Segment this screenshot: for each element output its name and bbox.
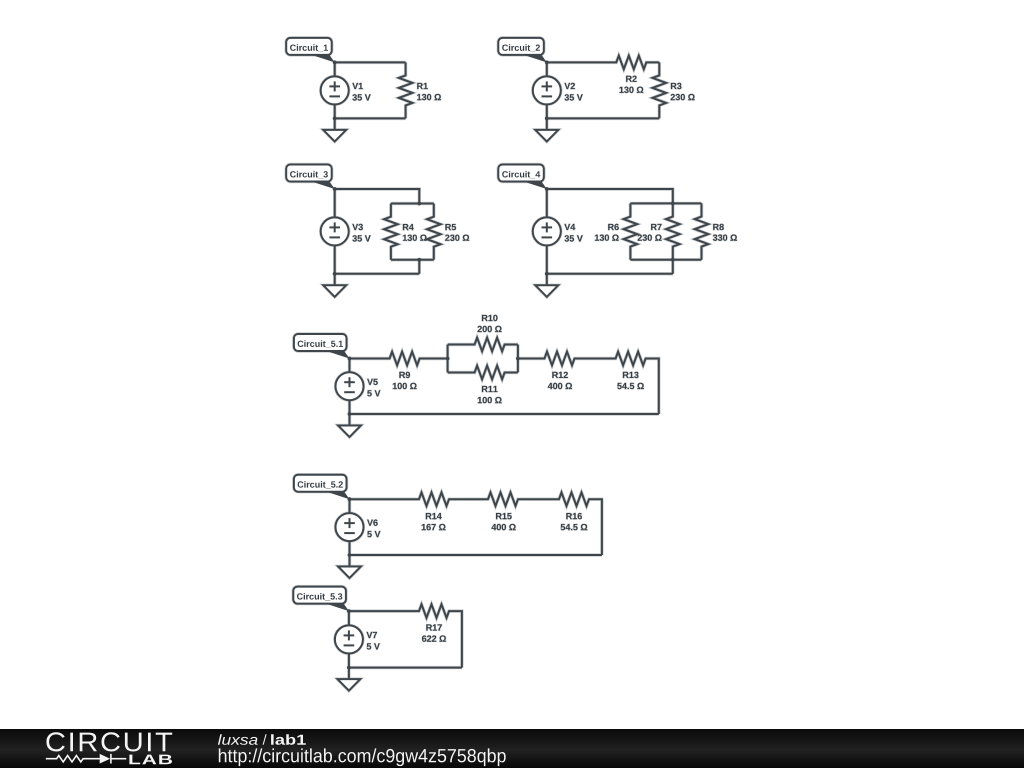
wire parallel bottom bar Circuit_3 (391, 259, 434, 261)
callout label Circuit_5.2 (294, 475, 347, 492)
value label R14 167 ohm (426, 513, 442, 519)
footer bar (0, 729, 1024, 768)
callout label Circuit_4 (498, 165, 544, 182)
value label R15 400 ohm (496, 513, 512, 519)
title luxsa / lab1 (218, 734, 258, 745)
junction node parallel right Circuit_5.1 (516, 357, 520, 361)
wire bottom rail Circuit_3 (335, 273, 420, 275)
ground Circuit_2 (546, 118, 548, 129)
resistor R5 (427, 204, 441, 260)
junction node bottom Circuit_5.3 (347, 666, 351, 670)
resistor R4 (384, 204, 398, 260)
wire main rail with resistor R9 (350, 352, 448, 366)
junction node top Circuit_2 (545, 61, 549, 65)
resistor R10 (448, 338, 518, 352)
resistor R8 (695, 203, 709, 259)
value label R3 230 ohm (671, 83, 682, 89)
value label R13 54.5 ohm (623, 372, 639, 378)
value label R12 400 ohm (552, 372, 568, 378)
wire parallel bottom bar Circuit_4 (630, 259, 701, 261)
ground Circuit_5.3 (348, 668, 350, 680)
junction node parallel top Circuit_3 (417, 202, 421, 206)
wire mid rail with resistor R12 (518, 352, 595, 366)
junction node top Circuit_5.1 (348, 357, 352, 361)
value label R5 230 ohm (445, 224, 456, 230)
callout label Circuit_5.1 (294, 334, 347, 351)
wire bottom rail Circuit_5.2 (350, 554, 602, 556)
ground Circuit_5.2 (349, 555, 351, 567)
ground Circuit_4 (546, 274, 548, 286)
wire parallel top bar Circuit_4 (630, 202, 701, 204)
wire bottom rail Circuit_5.1 (350, 413, 659, 415)
ground Circuit_5.1 (349, 414, 351, 426)
wire bottom stub Circuit_4 (672, 260, 674, 274)
wire rail with resistor R17 and right side down (349, 604, 462, 667)
ground Circuit_3 (334, 274, 336, 286)
value label R1 130 ohm (417, 83, 428, 89)
wire rail with resistor R15 (468, 492, 538, 506)
value label R17 622 ohm (426, 624, 442, 630)
junction node bottom Circuit_5.2 (348, 553, 352, 557)
ground Circuit_1 (334, 118, 336, 129)
value label V7 5 V (367, 632, 378, 638)
wire bottom rail Circuit_4 (547, 273, 673, 275)
wire bottom rail Circuit_2 (547, 117, 660, 119)
wire top rail Circuit_3 (335, 189, 420, 204)
resistor R11 (448, 366, 518, 380)
wire parallel box left edge Circuit_5.1 (447, 345, 449, 373)
callout label Circuit_2 (498, 38, 544, 55)
value label V5 5 V (367, 379, 378, 385)
callout label Circuit_5.3 (293, 587, 346, 604)
wire bottom rail Circuit_1 (335, 117, 406, 119)
value label R4 130 ohm (403, 224, 414, 230)
value label R16 54.5 ohm (566, 513, 582, 519)
junction node bottom Circuit_4 (545, 272, 549, 276)
junction node bottom Circuit_2 (545, 117, 549, 121)
wire parallel box right edge Circuit_5.1 (517, 345, 519, 373)
junction node parallel bottom Circuit_3 (417, 258, 421, 262)
wire rail with resistor R13 and right side down (595, 352, 659, 414)
resistor R1 (399, 62, 413, 118)
resistor R3 (653, 62, 667, 118)
value label V1 35 V (352, 83, 363, 89)
junction node top Circuit_3 (333, 187, 337, 191)
wire rail with resistor R14 (350, 492, 469, 506)
junction node top Circuit_1 (333, 61, 337, 65)
junction node top Circuit_5.2 (348, 497, 352, 501)
url text circuitlab.com/c9gw4z5758qbp (219, 748, 506, 766)
CircuitLab logo wordmark CIRCUIT (46, 732, 172, 751)
junction node parallel bottom Circuit_4 (671, 258, 675, 262)
value label R9 100 ohm (399, 372, 410, 378)
voltage source V2 (546, 62, 548, 76)
CircuitLab logo resistor-diode glyph (46, 754, 127, 764)
callout label Circuit_1 (286, 38, 332, 55)
junction node bottom Circuit_5.1 (348, 412, 352, 416)
value label V6 5 V (367, 520, 378, 526)
wire parallel top bar Circuit_3 (391, 203, 434, 205)
wire bottom stub Circuit_3 (418, 260, 420, 274)
voltage source V4 (546, 189, 548, 217)
voltage source V5 (349, 359, 351, 373)
junction node bottom Circuit_1 (333, 117, 337, 121)
junction node parallel left Circuit_5.1 (446, 357, 450, 361)
junction node bottom Circuit_3 (333, 272, 337, 276)
wire top rail Circuit_2 with resistor R2 (547, 56, 660, 70)
value label R2 130 ohm (626, 76, 637, 82)
voltage source V6 (349, 499, 351, 513)
wire bottom rail Circuit_5.3 (349, 667, 462, 669)
value label R7 230 ohm (651, 224, 662, 230)
voltage source V3 (334, 189, 336, 217)
wire top rail Circuit_4 (547, 189, 673, 203)
value label R10 200 ohm (482, 315, 498, 321)
wire top rail Circuit_1 (335, 61, 406, 63)
resistor R6 (624, 203, 638, 259)
value label V3 35 V (352, 224, 363, 230)
value label V4 35 V (564, 224, 575, 230)
callout label Circuit_3 (286, 165, 332, 182)
junction node top Circuit_4 (545, 187, 549, 191)
resistor R7 (666, 203, 680, 259)
value label R6 130 ohm (608, 224, 619, 230)
value label R8 330 ohm (713, 224, 724, 230)
value label R11 100 ohm (482, 386, 498, 392)
wire rail with resistor R16 and right side down (538, 492, 602, 555)
voltage source V1 (334, 62, 336, 76)
voltage source V7 (348, 611, 350, 625)
junction node parallel top Circuit_4 (671, 202, 675, 206)
value label V2 35 V (564, 83, 575, 89)
junction node top Circuit_5.3 (347, 609, 351, 613)
CircuitLab logo wordmark LAB (129, 755, 172, 765)
